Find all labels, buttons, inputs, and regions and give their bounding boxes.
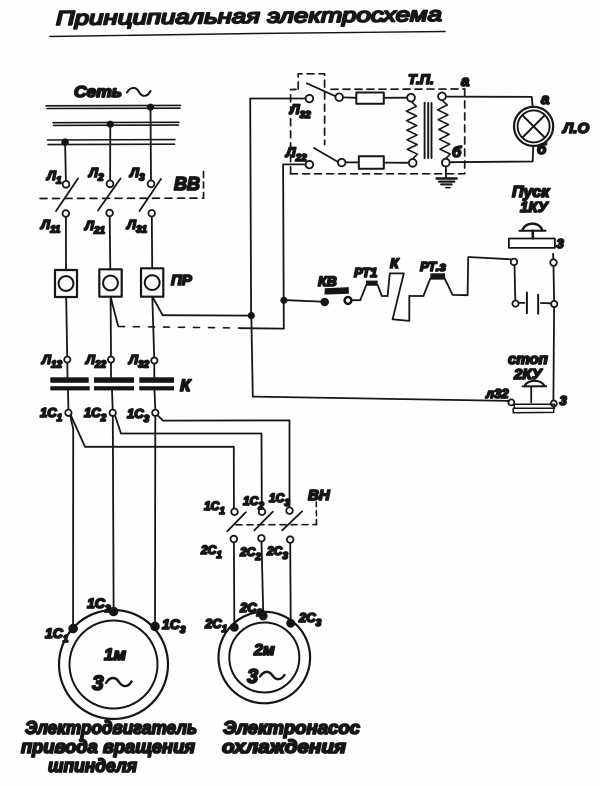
svg-text:Л11: Л11	[40, 217, 61, 236]
svg-text:Л31: Л31	[126, 217, 147, 236]
wire Л12 to contact	[66, 363, 68, 377]
svg-text:1С3: 1С3	[127, 406, 150, 425]
svg-text:а: а	[461, 73, 469, 90]
contactor К main contact phase 2	[94, 377, 134, 390]
motor M2 (2М 3~)	[218, 612, 310, 704]
wire return riser to junction	[251, 316, 253, 397]
node Л22	[85, 352, 114, 371]
svg-text:1С1: 1С1	[204, 499, 225, 517]
svg-text:Л12: Л12	[41, 352, 62, 371]
node Л32	[128, 352, 157, 371]
switch ВВ blade 3	[140, 179, 162, 211]
wire riser to switch Л22	[283, 164, 306, 328]
motor M2 terminal 2С1	[204, 616, 239, 635]
switch ВВ blade 1	[56, 179, 78, 212]
node Л1	[46, 168, 69, 188]
svg-text:3: 3	[560, 393, 568, 408]
junction dot phase 2 on line 2	[107, 121, 114, 128]
contactor coil К	[388, 255, 410, 321]
wire riser to switch Л32	[250, 99, 306, 316]
switch ВН blade 3	[282, 511, 302, 530]
node Л3	[129, 165, 154, 187]
svg-text:б: б	[452, 144, 462, 161]
thermal contact РТ1	[354, 265, 388, 300]
resistor R1	[356, 93, 384, 104]
junction dot phase 3 on line 1	[147, 104, 154, 111]
wire 1С2 tap rail to ВН	[115, 415, 262, 508]
switch ВН node 2С2	[239, 535, 265, 563]
wire riser РТ3 to Пуск	[468, 257, 512, 295]
motor M1 terminal 1С3	[150, 616, 186, 636]
svg-text:Л32: Л32	[128, 352, 149, 371]
switch ВН node 2С3	[266, 536, 294, 562]
motor M2 terminal 2С2	[239, 600, 268, 620]
svg-text:Сеть: Сеть	[74, 84, 122, 101]
svg-text:КВ: КВ	[318, 273, 337, 289]
node 1С1	[40, 405, 72, 424]
button стоп 2КУ	[508, 351, 568, 413]
svg-text:2С3: 2С3	[266, 544, 288, 562]
svg-text:Л.О: Л.О	[562, 120, 589, 137]
wire 2С3 to motor 2	[289, 543, 292, 619]
resistor R2	[359, 156, 384, 169]
wire drop phase 2	[109, 125, 111, 181]
motor M1 (1М 3~)	[59, 610, 168, 719]
svg-text:2С1: 2С1	[200, 543, 222, 561]
wire 1С3 to motor 1 terminal	[154, 416, 156, 622]
contact 1КУ (hold contact)	[512, 293, 557, 314]
svg-text:Электронасос: Электронасос	[223, 718, 360, 738]
switch ВН blade 2	[254, 512, 272, 531]
wire control feed to КВ	[287, 300, 322, 301]
svg-text:б: б	[537, 141, 547, 158]
svg-text:2С3: 2С3	[298, 610, 322, 629]
button Пуск 1КУ	[509, 184, 565, 266]
wire 2С2 to motor 2	[262, 542, 264, 612]
mains phase line 1	[46, 105, 181, 108]
svg-text:РТ1: РТ1	[354, 265, 377, 280]
svg-text:3: 3	[557, 236, 565, 251]
svg-text:2С2: 2С2	[239, 545, 261, 563]
wire Пуск left terminal down	[514, 265, 517, 300]
wire tap fuse2 solid run to riser	[240, 327, 284, 329]
net label Сеть ~	[74, 84, 151, 101]
wire Л11 to fuse 1	[65, 217, 67, 270]
svg-text:2С1: 2С1	[204, 616, 228, 635]
svg-text:1С3: 1С3	[162, 616, 186, 636]
wire tap from fuse 2 (slant)	[111, 298, 118, 326]
node 1С2	[84, 405, 116, 424]
wire tap from fuse 3 (slant)	[153, 298, 163, 315]
wire drop phase 1	[64, 143, 67, 182]
svg-text:ПР: ПР	[171, 272, 193, 289]
svg-text:Электродвигатель: Электродвигатель	[25, 718, 197, 738]
svg-text:Л1: Л1	[46, 168, 62, 187]
wire Пуск right terminal down	[553, 266, 556, 301]
wire КВ to РТ1	[352, 299, 361, 301]
switch Л22 (лег)	[285, 144, 346, 168]
svg-text:Л2: Л2	[88, 165, 104, 184]
svg-text:1С1: 1С1	[40, 405, 63, 424]
svg-text:а: а	[541, 91, 549, 108]
dashed enclosure big box	[291, 89, 465, 174]
junction dot phase 1 on line 3	[61, 138, 69, 146]
svg-text:1КУ: 1КУ	[520, 199, 550, 216]
svg-text:1С1: 1С1	[45, 625, 69, 645]
contactor К main contact phase 1	[50, 377, 89, 390]
wire fuse2 to Л22	[110, 297, 112, 357]
switch ВН link riser (dashed)	[315, 502, 317, 525]
caption motor 2	[222, 718, 360, 757]
switch ВН node 2С1	[200, 536, 237, 561]
svg-text:шпинделя: шпинделя	[48, 756, 137, 776]
switch ВН node 1С3	[269, 491, 293, 514]
node Л31	[126, 210, 155, 236]
wire 2С1 to motor 2	[233, 542, 235, 623]
fuse F3	[141, 268, 163, 296]
wire secondary а to lamp	[446, 97, 533, 107]
wire Л32 switch to resistor R1	[343, 96, 356, 98]
wire Л22 to contact	[110, 363, 112, 377]
svg-text:3: 3	[92, 672, 104, 695]
wire Л32 to contact	[153, 364, 155, 377]
svg-text:1С2: 1С2	[84, 405, 107, 424]
svg-text:ВН: ВН	[308, 487, 331, 504]
switch ВВ mechanical link (dashed)	[40, 197, 204, 199]
svg-text:К: К	[390, 255, 400, 271]
svg-text:Л21: Л21	[84, 218, 105, 237]
wire R2 to transformer primary	[384, 162, 409, 164]
thermal contact РТ3	[420, 259, 468, 296]
switch ВН node 1С2	[243, 494, 265, 515]
wire tap fuse2 dash-dot run	[119, 327, 241, 329]
svg-text:1м: 1м	[104, 645, 126, 664]
svg-text:привода вращения: привода вращения	[21, 737, 195, 757]
node Л2	[88, 165, 113, 187]
title Принципиальная электросхема	[50, 4, 445, 37]
wire contact1 to 1С1	[67, 390, 69, 409]
svg-text:3: 3	[247, 666, 258, 688]
wire Л22 switch to resistor R2	[346, 161, 359, 163]
node Л21	[84, 210, 113, 237]
svg-text:РТ.з: РТ.з	[420, 259, 446, 274]
wire стоп return run	[253, 397, 510, 401]
motor M1 terminal 1С1	[45, 624, 78, 645]
svg-text:л32: л32	[485, 386, 509, 401]
wire contact3 to 1С3	[154, 390, 157, 409]
svg-text:К: К	[180, 376, 192, 395]
wire tap fuse3 run	[163, 314, 252, 316]
junction dot Л32 feed	[248, 312, 255, 319]
wire contact2 to 1С2	[111, 390, 114, 409]
switch ВН mechanical link (dashed)	[236, 524, 317, 526]
wire 1С2 to motor 1 terminal	[112, 416, 115, 607]
limit switch КВ	[318, 273, 351, 305]
fuse F1	[55, 270, 77, 297]
wire 1С1 tap rail to ВН	[71, 415, 234, 508]
switch ВН node 1С1	[204, 499, 238, 517]
svg-text:охлаждения: охлаждения	[222, 737, 346, 757]
motor M2 terminal 2С3	[286, 610, 321, 629]
wire Л21 to fuse 2	[109, 216, 112, 269]
wire fuse1 to Л12	[66, 297, 67, 357]
mains phase line 3	[48, 140, 176, 145]
svg-text:Принципиальная электросхема: Принципиальная электросхема	[56, 4, 442, 30]
junction dot control feed	[280, 297, 287, 304]
wire К to РТ3	[409, 295, 423, 297]
ground	[437, 167, 457, 188]
switch Л32 (лзг)	[289, 83, 343, 121]
switch ВН blade 1	[227, 512, 246, 531]
node Л11	[40, 210, 69, 235]
wire 1С3 tap rail to ВН	[158, 415, 290, 507]
wire Л31 to fuse 3	[151, 217, 153, 269]
switch ВВ blade 2	[98, 179, 121, 211]
switch ВВ box edge (dashed vertical)	[203, 172, 205, 199]
node 1С3	[127, 406, 159, 425]
wire fuse3 to Л32	[152, 297, 154, 358]
svg-text:Л22: Л22	[85, 352, 106, 371]
svg-text:Т.П.: Т.П.	[408, 71, 434, 87]
svg-text:Л3: Л3	[129, 165, 145, 184]
wire drop phase 3	[150, 108, 153, 181]
svg-text:1С3: 1С3	[269, 491, 290, 509]
motor M1 terminal 1С2	[87, 595, 118, 616]
transformer ТП	[406, 71, 450, 167]
wire R1 to transformer primary	[384, 97, 407, 99]
fuse F2	[99, 269, 121, 296]
svg-text:2м: 2м	[253, 642, 275, 659]
caption motor 1	[21, 718, 197, 776]
svg-text:Л32: Л32	[289, 101, 311, 121]
node Л12	[41, 352, 70, 371]
wire right side down to стоп	[552, 307, 555, 400]
svg-text:Л22: Л22	[285, 144, 307, 164]
mains phase line 2	[53, 122, 179, 125]
dashed enclosure small box	[298, 74, 324, 145]
contactor К main contact phase 3	[139, 377, 174, 390]
svg-text:ВВ: ВВ	[174, 174, 200, 194]
wire secondary б to lamp	[450, 146, 534, 162]
wire 1С1 to motor 1 terminal	[70, 415, 73, 624]
lamp ЛО	[514, 107, 553, 146]
